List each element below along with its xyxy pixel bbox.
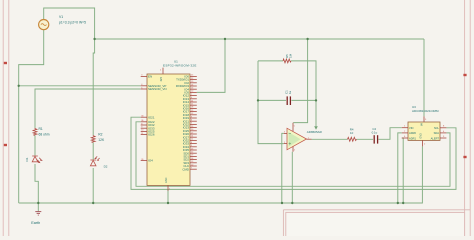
svg-text:12K: 12K bbox=[98, 138, 105, 142]
wire C1 right bbox=[291, 99, 316, 101]
capacitor C2 bbox=[372, 127, 378, 144]
wire op-amp V- to rail bbox=[291, 152, 293, 203]
wire R5 right bbox=[291, 61, 316, 126]
wire 3V3 horizontal bbox=[95, 38, 424, 40]
wire feedback vertical to plus input bbox=[258, 61, 284, 144]
ESP32 module U1 bbox=[147, 59, 197, 190]
wire 3V3 to ADC VDD bbox=[423, 39, 425, 116]
svg-text:10: 10 bbox=[350, 131, 354, 135]
svg-text:ESP32-WROOM-32E: ESP32-WROOM-32E bbox=[163, 64, 197, 68]
svg-text:p1=3.3 p2=0 W=5: p1=3.3 p2=0 W=5 bbox=[59, 20, 86, 24]
svg-text:5: 5 bbox=[294, 125, 295, 127]
svg-text:ADR1: ADR1 bbox=[409, 136, 416, 140]
junction SENSOR_VP to ground wire bbox=[18, 85, 20, 87]
resistor R4 bbox=[348, 128, 357, 142]
sheet border right bbox=[465, 0, 471, 236]
wire R1 to D1 bbox=[34, 135, 36, 155]
junction ground rail at ADC ADR1 bbox=[402, 202, 404, 204]
net arrow symbol bbox=[314, 126, 318, 129]
junction ground rail at Earth bbox=[37, 202, 39, 204]
wire C2 to ADC VIN bbox=[378, 128, 401, 140]
pin 3V3 top bbox=[162, 68, 164, 74]
ADC U3 bbox=[402, 105, 447, 146]
voltage source V1 bbox=[39, 15, 87, 30]
wire R4 to C2 bbox=[357, 138, 374, 140]
junction 3V3 to op-amp V+ branch bbox=[306, 38, 308, 40]
ESP32 left pins bbox=[141, 75, 167, 163]
junction ground rail at op-amp V- bbox=[291, 202, 293, 204]
svg-text:R1: R1 bbox=[39, 127, 43, 131]
svg-text:D1: D1 bbox=[25, 157, 29, 161]
svg-text:GND: GND bbox=[420, 133, 423, 139]
wire C1 left bbox=[258, 99, 286, 101]
svg-text:4: 4 bbox=[294, 150, 295, 152]
svg-text:VA: VA bbox=[421, 123, 424, 126]
op-amp U2 bbox=[284, 123, 323, 152]
wire ESP32 IO21 loop to ADC SCL bbox=[131, 117, 456, 189]
resistor R1 bbox=[33, 127, 50, 136]
junction ground rail at ADC ADR0 bbox=[397, 202, 399, 204]
ground Earth bbox=[31, 212, 41, 226]
svg-text:R2: R2 bbox=[98, 133, 102, 137]
wire D1 to rail jog bbox=[35, 164, 38, 203]
resistor R2 bbox=[91, 133, 105, 143]
junction C1 left to feedback net bbox=[257, 99, 259, 101]
junction ground rail at D2 bbox=[92, 202, 94, 204]
svg-text:IO4: IO4 bbox=[148, 159, 153, 163]
svg-text:IO21: IO21 bbox=[148, 115, 155, 119]
svg-text:D2: D2 bbox=[104, 164, 108, 168]
svg-text:ADR0: ADR0 bbox=[409, 131, 416, 135]
svg-text:3: 3 bbox=[284, 132, 285, 134]
junction C1 right to net arrow stub bbox=[315, 99, 317, 101]
svg-text:1M: 1M bbox=[289, 53, 293, 58]
junction ground rail at ESP32 GND bbox=[167, 202, 169, 204]
wire ADC ADR1 to rail bbox=[402, 138, 403, 203]
svg-text:Earth: Earth bbox=[31, 221, 40, 225]
svg-text:3V3: 3V3 bbox=[160, 76, 163, 81]
svg-text:SCL: SCL bbox=[434, 126, 440, 130]
svg-text:VIN: VIN bbox=[409, 126, 413, 130]
svg-text:SENSOR_VN: SENSOR_VN bbox=[148, 87, 167, 91]
capacitor C1 bbox=[284, 90, 292, 105]
svg-text:SDA: SDA bbox=[434, 131, 440, 135]
LED D1 bbox=[25, 156, 42, 163]
svg-text:ADC081C021CIMM: ADC081C021CIMM bbox=[412, 109, 439, 113]
svg-text:IO26: IO26 bbox=[148, 133, 155, 137]
frame tick left bbox=[4, 144, 7, 146]
svg-text:GND: GND bbox=[165, 177, 168, 183]
junction on 3V3 rail at V1 branch bbox=[93, 38, 95, 40]
junction ground rail at op-amp input leg bbox=[281, 202, 283, 204]
wire R2 to D2 bbox=[92, 142, 94, 159]
wire op-amp output to R4 bbox=[312, 138, 348, 140]
svg-text:68 ohm: 68 ohm bbox=[39, 132, 50, 136]
wire ESP32 GND to rail bbox=[167, 190, 169, 203]
frame tick left upper bbox=[4, 62, 7, 64]
wire V1 bottom to ground rail bbox=[19, 30, 44, 203]
svg-text:1u: 1u bbox=[288, 90, 292, 94]
wire ADC ADR0 to rail bbox=[398, 133, 402, 203]
title block bbox=[283, 210, 470, 239]
ground rail bbox=[19, 146, 423, 203]
ESP32 right pins bbox=[176, 75, 197, 172]
svg-text:ALERT: ALERT bbox=[431, 136, 440, 140]
svg-text:V1: V1 bbox=[59, 15, 63, 19]
wire SENSOR_VP bbox=[19, 85, 141, 87]
frame tick right upper bbox=[463, 74, 466, 76]
svg-text:1: 1 bbox=[308, 137, 309, 139]
wire 3V3 to op-amp V+ bbox=[293, 39, 307, 123]
svg-text:EN: EN bbox=[148, 75, 152, 79]
wire V1 top to 3V3 rail bbox=[44, 8, 95, 135]
svg-text:CMD: CMD bbox=[182, 167, 189, 171]
wire op-amp minus input down bbox=[282, 133, 284, 203]
pin GND bottom bbox=[167, 185, 169, 190]
svg-text:0.1u: 0.1u bbox=[372, 130, 378, 134]
junction 3V3 to ESP32 branch bbox=[224, 38, 226, 40]
frame tick right lower bbox=[463, 156, 466, 158]
sheet border left bbox=[3, 0, 9, 236]
ground stub Earth bbox=[37, 203, 39, 212]
wire ESP32 IO22 loop to ADC SDA bbox=[136, 122, 450, 187]
wire SENSOR_VN to R1 bbox=[35, 89, 141, 128]
wire R5 left bbox=[258, 60, 283, 62]
svg-text:AD8605AR: AD8605AR bbox=[307, 130, 323, 134]
photodiode D2 bbox=[90, 156, 107, 168]
svg-text:2: 2 bbox=[284, 142, 285, 144]
wire 3V3 to ESP32 IO3 bbox=[197, 39, 225, 92]
wire D2 to rail bbox=[92, 168, 94, 203]
resistor R5 bbox=[283, 53, 293, 62]
